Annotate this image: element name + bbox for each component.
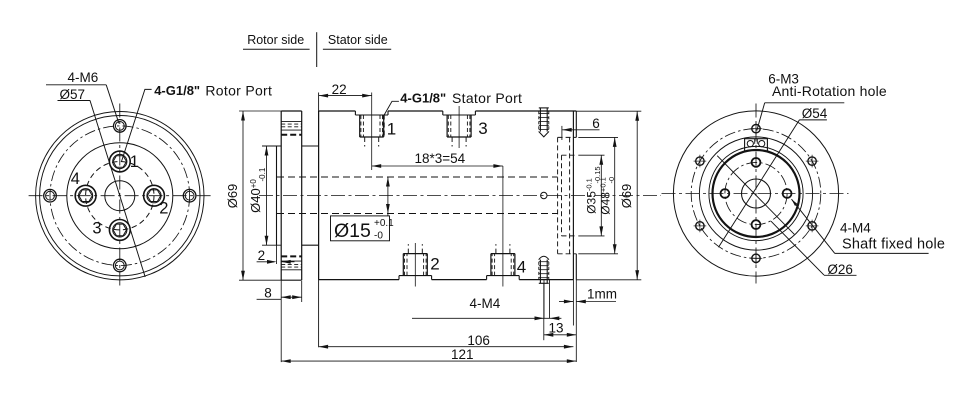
svg-text:Ø69: Ø69 bbox=[225, 184, 240, 209]
svg-text:22: 22 bbox=[332, 82, 347, 97]
svg-text:2: 2 bbox=[159, 199, 168, 217]
svg-text:4-M6: 4-M6 bbox=[68, 70, 99, 85]
svg-text:+0.1: +0.1 bbox=[374, 218, 394, 229]
svg-text:Ø15: Ø15 bbox=[334, 220, 371, 242]
svg-text:Ø26: Ø26 bbox=[827, 262, 853, 277]
svg-text:2: 2 bbox=[430, 254, 439, 273]
svg-text:8: 8 bbox=[264, 286, 272, 301]
svg-text:106: 106 bbox=[467, 333, 490, 348]
svg-text:Rotor Port: Rotor Port bbox=[205, 82, 272, 98]
svg-text:Ø69: Ø69 bbox=[619, 184, 634, 209]
svg-text:1: 1 bbox=[130, 153, 139, 171]
svg-text:4: 4 bbox=[517, 258, 526, 277]
svg-text:Rotor side: Rotor side bbox=[247, 33, 304, 47]
svg-text:4: 4 bbox=[71, 170, 80, 188]
svg-text:1: 1 bbox=[387, 120, 396, 139]
svg-text:Ø57: Ø57 bbox=[60, 87, 86, 102]
svg-text:3: 3 bbox=[92, 220, 101, 238]
svg-text:-0: -0 bbox=[374, 231, 383, 242]
svg-text:-0.1: -0.1 bbox=[258, 167, 267, 181]
svg-text:2: 2 bbox=[258, 248, 266, 263]
svg-text:Ø54: Ø54 bbox=[802, 106, 828, 121]
svg-text:1mm: 1mm bbox=[587, 286, 617, 301]
svg-text:Stator side: Stator side bbox=[328, 33, 388, 47]
svg-text:Shaft fixed hole: Shaft fixed hole bbox=[842, 237, 945, 253]
svg-text:13: 13 bbox=[549, 321, 564, 336]
svg-text:4-G1/8": 4-G1/8" bbox=[154, 83, 200, 98]
svg-text:-0: -0 bbox=[607, 177, 616, 184]
svg-text:4-M4: 4-M4 bbox=[470, 296, 501, 311]
svg-text:Anti-Rotation hole: Anti-Rotation hole bbox=[772, 83, 887, 99]
svg-text:4-G1/8": 4-G1/8" bbox=[400, 91, 446, 106]
svg-text:4-M4: 4-M4 bbox=[840, 220, 871, 235]
svg-text:6: 6 bbox=[592, 116, 600, 131]
svg-text:Stator Port: Stator Port bbox=[452, 90, 522, 106]
svg-text:121: 121 bbox=[451, 347, 474, 362]
svg-text:18*3=54: 18*3=54 bbox=[415, 151, 466, 166]
svg-text:3: 3 bbox=[478, 119, 487, 138]
